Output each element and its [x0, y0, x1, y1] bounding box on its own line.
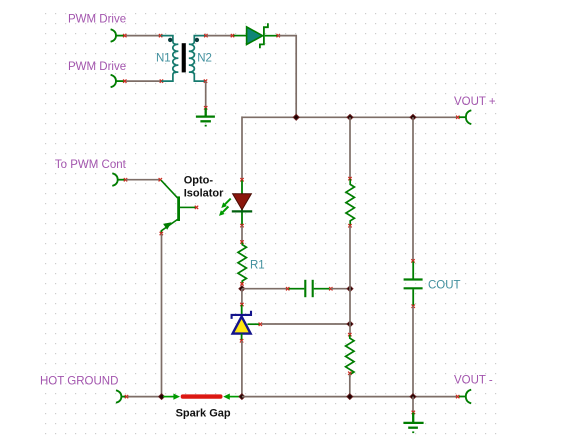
top rail wire: [242, 116, 458, 118]
pin mark R1 top: [240, 240, 243, 243]
pin mark N2 bottom: [204, 79, 207, 82]
svg-text:HOT GROUND: HOT GROUND: [40, 376, 118, 388]
spark gap bar: [181, 394, 223, 398]
node junction R1/cap: [239, 286, 245, 292]
svg-text:PWM Drive: PWM Drive: [68, 61, 126, 73]
wire column C top: [349, 117, 351, 178]
pin mark zener cathode: [240, 303, 243, 306]
pin mark ground: [204, 106, 207, 109]
transistor emitter arrow: [163, 222, 171, 230]
wire column C bottom: [349, 374, 351, 397]
wire column C middle: [349, 226, 351, 335]
transformer T1 winding N1: [161, 36, 178, 82]
wire A column to zener: [241, 289, 243, 305]
phase dot N2: [195, 38, 199, 42]
pin mark zener ref: [259, 323, 262, 326]
pin mark zener anode: [240, 339, 243, 342]
node junction cap/C column: [347, 286, 353, 292]
wire PWM1 to N1 top: [126, 35, 161, 37]
pin mark cap left: [286, 287, 289, 290]
bottom rail middle: [242, 396, 458, 398]
pin mark cap right: [329, 287, 332, 290]
wire D column to ground: [412, 397, 414, 412]
LED light arrows: [219, 199, 231, 216]
wire N2 top to diode: [207, 35, 233, 37]
pin mark COUT top: [411, 259, 414, 262]
diode D1 (schottky): [234, 23, 278, 48]
svg-text:Isolator: Isolator: [184, 188, 224, 200]
wire emitter down to bottom rail: [161, 234, 163, 397]
spark gap right arrow: [223, 394, 230, 400]
pin mark R3 bottom: [348, 372, 351, 375]
pin mark R2 bottom: [348, 224, 351, 227]
pin mark diode anode: [231, 34, 234, 37]
bottom rail left: [128, 396, 163, 398]
connector PWM Drive bottom: [111, 75, 125, 88]
wire zener ref to column C: [262, 323, 351, 325]
pin mark VOUT+: [456, 116, 459, 119]
pin mark: [160, 79, 163, 82]
pin mark R1 bottom: [240, 282, 243, 285]
pin mark base: [195, 206, 198, 209]
svg-text:N1: N1: [156, 52, 171, 64]
svg-text:VOUT -: VOUT -: [454, 375, 493, 387]
ground (bottom): [403, 413, 423, 428]
pin mark R2 top: [348, 177, 351, 180]
node junction C/bottom rail: [347, 394, 353, 400]
spark gap left arrow: [163, 396, 175, 398]
resistor R2: [346, 179, 354, 225]
node junction B/rail: [293, 114, 299, 120]
LED D2 (opto LED): [232, 181, 252, 226]
wire N2 bottom down to ground: [205, 81, 207, 107]
pin mark ground: [412, 411, 415, 414]
ground (under transformer): [196, 108, 215, 121]
node junction D/rail: [410, 114, 416, 120]
transformer T1 winding N2: [189, 36, 206, 82]
pin mark N2 top: [204, 34, 207, 37]
pin mark LED anode: [240, 178, 243, 181]
pin mark: [125, 395, 128, 398]
svg-text:R1: R1: [250, 260, 265, 272]
wire column D bottom: [412, 306, 414, 396]
pin mark LED cathode: [240, 224, 243, 227]
svg-text:Spark Gap: Spark Gap: [176, 408, 231, 420]
wire column D top: [412, 117, 414, 260]
pin mark: [123, 34, 126, 37]
wire zener to bottom rail: [241, 341, 243, 397]
node junction emitter/bottom rail: [159, 394, 165, 400]
svg-text:COUT: COUT: [428, 280, 461, 292]
svg-text:Opto-: Opto-: [184, 174, 214, 186]
transistor Q1 (opto phototransistor): [161, 180, 196, 233]
zener D3 (TL431-style): [232, 305, 260, 341]
node junction zener/bottom rail: [239, 394, 245, 400]
capacitor C1: [289, 280, 330, 297]
connector VOUT+: [459, 110, 471, 124]
wire diode to column B: [278, 36, 296, 118]
svg-text:PWM Drive: PWM Drive: [68, 14, 126, 26]
node junction D/bottom rail: [410, 394, 416, 400]
connector PWM Drive top: [111, 29, 125, 42]
wire LED to R1: [241, 226, 243, 242]
wire cap row right: [331, 288, 350, 290]
wire to transistor collector: [126, 179, 161, 181]
svg-text:VOUT +: VOUT +: [454, 96, 496, 108]
pin mark: [123, 79, 126, 82]
pin mark diode cathode: [277, 34, 280, 37]
pin mark VOUT-: [456, 395, 459, 398]
connector VOUT-: [459, 390, 471, 404]
resistor R3: [346, 335, 354, 377]
pin mark COUT bottom: [412, 305, 415, 308]
connector To PWM Cont: [112, 173, 125, 186]
pin mark: [124, 178, 127, 181]
pin mark emitter: [160, 232, 163, 235]
node junction zener/C column: [347, 321, 353, 327]
svg-text:N2: N2: [197, 52, 212, 64]
pin mark R3 top: [348, 333, 351, 336]
phase dot N1: [168, 38, 172, 42]
connector HOT GROUND: [116, 390, 126, 403]
transformer core: [182, 43, 186, 72]
pin mark: [159, 34, 162, 37]
wire column A top: [241, 116, 243, 179]
node junction C/rail: [347, 114, 353, 120]
capacitor COUT: [404, 262, 423, 306]
pin mark collector: [159, 178, 162, 181]
svg-text:To PWM Cont: To PWM Cont: [55, 159, 127, 171]
wire cap row left: [242, 288, 288, 290]
resistor R1: [238, 243, 246, 284]
wire PWM2 to N1 bottom: [126, 80, 161, 82]
